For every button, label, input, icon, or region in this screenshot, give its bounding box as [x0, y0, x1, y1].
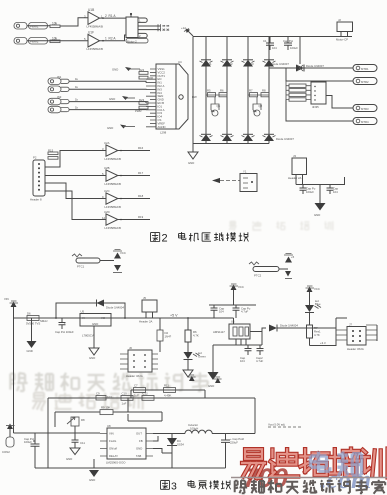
- svg-text:L7805CV: L7805CV: [82, 334, 94, 338]
- svg-text:GND: GND: [89, 356, 95, 360]
- svg-text:Header 2A: Header 2A: [288, 176, 302, 180]
- svg-text:J3: J3: [293, 154, 296, 158]
- resistor bank R9-R12: [286, 81, 306, 101]
- connector P5 (8-pin header): [30, 156, 45, 202]
- wire J6 to U2: [69, 102, 146, 103]
- inductor L1: [185, 423, 255, 434]
- svg-text:GND: GND: [314, 213, 320, 217]
- svg-text:Header 8: Header 8: [30, 198, 42, 202]
- svg-text:LF4558MA/B: LF4558MA/B: [105, 182, 121, 186]
- svg-text:+5 V: +5 V: [170, 314, 178, 318]
- svg-text:Green: Green: [198, 355, 206, 359]
- wire opto to P4: [286, 100, 353, 122]
- svg-text:C12: C12: [143, 392, 149, 396]
- connector Motor-CP (top right box): [336, 18, 353, 42]
- svg-text:1k: 1k: [75, 77, 79, 81]
- svg-text:LF4558MA/B: LF4558MA/B: [87, 25, 103, 29]
- svg-text:U1F: U1F: [88, 31, 94, 35]
- svg-text:103: 103: [107, 395, 112, 399]
- trimmer R25: [67, 417, 85, 433]
- svg-text:Cap Pol 100uF: Cap Pol 100uF: [55, 330, 74, 334]
- svg-text:R8: R8: [262, 89, 266, 93]
- svg-text:4N35: 4N35: [312, 105, 319, 109]
- svg-text:+3.3: +3.3: [320, 341, 326, 345]
- wire J1 to U1A: [27, 18, 88, 26]
- svg-text:TAB: TAB: [136, 454, 141, 458]
- IC U8 LM2596: [106, 424, 146, 465]
- svg-text:PWM1: PWM1: [30, 25, 39, 29]
- node cross junction: [297, 65, 303, 71]
- svg-text:L298: L298: [160, 131, 167, 135]
- wire drop from bus to row1: [299, 37, 301, 65]
- connector P2 (pill): [353, 78, 377, 85]
- ground arrow GND-A: [112, 67, 140, 72]
- svg-text:GND: GND: [188, 161, 194, 165]
- capacitor C18: [142, 392, 154, 401]
- diode D6 bottom col2: [221, 134, 234, 141]
- svg-text:C1: C1: [263, 39, 267, 43]
- test point marks: [268, 423, 301, 428]
- caption: fig.2 motor drive module: [151, 232, 249, 245]
- svg-text:Diode 1N4004: Diode 1N4004: [106, 306, 124, 310]
- resistor R20 LED chain: [185, 318, 199, 342]
- diode D3 top: [242, 60, 255, 67]
- IC U2 pin stubs: [146, 69, 156, 127]
- capacitor C15 input pol: [24, 433, 40, 452]
- jumper W1: [157, 318, 172, 352]
- svg-text:DW: DW: [192, 95, 197, 99]
- watermark: grey rule: [231, 477, 387, 479]
- wire U5B out: [118, 171, 150, 177]
- svg-text:4.7K: 4.7K: [314, 333, 320, 337]
- ground G5 LED: [183, 360, 193, 378]
- capacitor C1 on bus: [263, 37, 277, 51]
- capacitor C7: [233, 305, 251, 318]
- svg-text:R16: R16: [138, 146, 144, 150]
- wire H-bridge column 2: [226, 37, 228, 144]
- op-amp U5C: [102, 189, 121, 209]
- diode D13: [269, 324, 312, 332]
- op-amp U1A: [84, 8, 103, 29]
- svg-text:VCC: VCC: [238, 285, 244, 289]
- diode D4 top: [263, 60, 290, 67]
- svg-text:D6: D6: [27, 312, 31, 316]
- wire feedback loop A: [131, 390, 205, 398]
- svg-text:D3: D3: [250, 62, 254, 66]
- svg-text:C7: C7: [134, 384, 138, 388]
- wire opto to P3: [326, 96, 353, 109]
- wire U5C out: [118, 194, 150, 200]
- LED D12: [184, 342, 207, 360]
- connector J8 Header-2A: [139, 296, 157, 324]
- svg-text:R6: R6: [220, 89, 224, 93]
- svg-text:1k: 1k: [75, 85, 79, 89]
- diode D7 bottom col3: [242, 134, 255, 141]
- fuse F2 cluster: [249, 254, 295, 279]
- crystal Y1 with probe arrow: [212, 170, 257, 192]
- svg-text:3: 3: [171, 480, 177, 492]
- svg-text:GND: GND: [66, 457, 72, 461]
- wire bottom bus: [193, 143, 269, 145]
- svg-text:104: 104: [240, 359, 245, 363]
- wire H-bridge column 4: [268, 37, 270, 144]
- svg-text:GND: GND: [112, 68, 118, 72]
- capacitor C11: [164, 384, 176, 398]
- opto IC U3: [306, 82, 326, 109]
- capacitor C6: [209, 305, 256, 318]
- resistor R21 right: [307, 313, 321, 346]
- svg-text:2 R1 A: 2 R1 A: [105, 14, 116, 18]
- svg-text:C10: C10: [122, 392, 128, 396]
- resistor cluster near U2 mid: [135, 98, 148, 113]
- power arrow VCC-R: [306, 286, 320, 303]
- caption: fig.3 power module: [161, 480, 231, 492]
- svg-text:1uF: 1uF: [122, 402, 127, 406]
- svg-text:U2B: U2B: [104, 166, 110, 170]
- svg-text:GND: GND: [89, 478, 95, 482]
- svg-text:VIN: VIN: [109, 432, 114, 436]
- svg-text:FLAG: FLAG: [109, 439, 116, 443]
- svg-text:GND: GND: [107, 126, 113, 130]
- svg-text:1k: 1k: [75, 97, 79, 101]
- diode D9 on row1: [296, 64, 324, 72]
- svg-text:R19: R19: [138, 215, 144, 219]
- svg-text:IN3: IN3: [57, 95, 62, 99]
- wire VIN row: [48, 432, 100, 434]
- svg-text:MTR1: MTR1: [361, 67, 369, 71]
- svg-text:OUT: OUT: [136, 432, 142, 436]
- op-amp U5A: [102, 141, 121, 161]
- svg-text:Diode 1N4007: Diode 1N4007: [271, 62, 289, 66]
- svg-text:1k: 1k: [75, 105, 79, 109]
- wire row2 to vertical: [286, 68, 353, 81]
- svg-text:Y1: Y1: [243, 170, 247, 174]
- wire feedback loop B: [48, 398, 255, 434]
- svg-text:AMS1117: AMS1117: [213, 330, 225, 334]
- ghost watermark row 2: [32, 393, 46, 410]
- wire H-bridge column 1: [205, 37, 207, 144]
- capacitor C12: [96, 392, 112, 401]
- wire H-bridge column 3: [247, 37, 249, 144]
- svg-text:PWM2: PWM2: [30, 40, 39, 44]
- IC U2 L298 body: [156, 60, 197, 135]
- wire U5D out: [118, 215, 150, 221]
- svg-text:R8: R8: [81, 418, 85, 422]
- diode D5 bottom col1: [200, 134, 213, 141]
- capacitor C2 on bus: [283, 37, 298, 51]
- ground G7: [66, 448, 80, 461]
- svg-text:U2C: U2C: [104, 189, 110, 193]
- power arrow GND-D: [188, 375, 196, 381]
- svg-text:+12: +12: [181, 26, 186, 30]
- ground G6: [208, 372, 219, 388]
- svg-text:GND: GND: [27, 349, 33, 353]
- ground G4 regulator: [89, 326, 99, 360]
- svg-text:4.49K: 4.49K: [164, 394, 171, 398]
- wire J5 to U2: [69, 88, 146, 90]
- svg-text:Diode 1N4007: Diode 1N4007: [276, 137, 294, 141]
- wire J7 to U2: [69, 109, 146, 111]
- svg-text:104: 104: [272, 46, 277, 50]
- connector J4 row1: [48, 75, 79, 85]
- diode D11 bypass over regulator: [55, 300, 126, 319]
- svg-text:C9: C9: [96, 392, 100, 396]
- svg-text:100uF: 100uF: [306, 190, 314, 194]
- wire bottom rail: [35, 467, 226, 469]
- input cap C16 far left: [2, 424, 15, 455]
- IC U2 pin labels: [158, 67, 166, 129]
- svg-text:R15: R15: [48, 148, 54, 152]
- wire FB top link: [128, 414, 162, 421]
- ground G8: [89, 459, 99, 482]
- svg-text:R18: R18: [138, 194, 144, 198]
- wire feedback loop C: [55, 398, 162, 427]
- wire J4 to U2: [69, 81, 146, 82]
- IC U8 pin stubs: [100, 434, 153, 457]
- svg-text:VIN: VIN: [4, 297, 9, 301]
- svg-text:U4: U4: [178, 60, 182, 64]
- watermark: subtitle RF and antenna design experts: [235, 480, 248, 493]
- svg-text:P2: P2: [33, 156, 37, 160]
- connector Header2 right bottom: [288, 154, 307, 185]
- svg-text:D2: D2: [229, 62, 233, 66]
- svg-text:MTR4: MTR4: [361, 120, 369, 124]
- svg-text:Header 3X2A: Header 3X2A: [347, 347, 364, 351]
- svg-text:LF4558MA/B: LF4558MA/B: [105, 226, 121, 230]
- capacitor C13: [121, 392, 133, 406]
- svg-text:VI: VI: [82, 316, 85, 320]
- svg-text:4.7uF: 4.7uF: [256, 359, 263, 363]
- svg-text:Diode 1N4004: Diode 1N4004: [280, 324, 298, 328]
- TVS D10 on rail: [26, 312, 48, 326]
- svg-text:5V500 TVS: 5V500 TVS: [26, 322, 40, 326]
- svg-text:LM2596S-GOO: LM2596S-GOO: [106, 461, 126, 465]
- svg-text:U2A: U2A: [104, 141, 110, 145]
- resistor R24: [100, 406, 113, 415]
- svg-text:Motor-CP: Motor-CP: [336, 38, 348, 42]
- connector J10 Header 3X2: [312, 318, 377, 351]
- wire P5 to U5D: [45, 191, 106, 220]
- svg-text:J2: J2: [338, 18, 341, 22]
- diode D1 top: [200, 60, 213, 67]
- svg-text:4.7uF: 4.7uF: [241, 310, 248, 314]
- svg-text:Header 4X2A: Header 4X2A: [126, 374, 143, 378]
- op-amp U5B: [102, 166, 121, 186]
- svg-text:R9 10K: R9 10K: [101, 406, 110, 410]
- resistor cluster near U2 top: [139, 68, 154, 80]
- svg-text:R7: R7: [249, 89, 253, 93]
- svg-text:J5: J5: [143, 296, 146, 300]
- wire top bus: [193, 36, 352, 38]
- diode D2 top: [221, 60, 234, 67]
- svg-text:J6: J6: [129, 346, 132, 350]
- svg-text:4.7K: 4.7K: [193, 334, 199, 338]
- svg-text:220uF: 220uF: [230, 440, 238, 444]
- svg-text:Cap Pol: Cap Pol: [283, 39, 293, 43]
- capacitor C10: [134, 384, 146, 398]
- ground arrow GND-B: [109, 96, 135, 101]
- ground G3: [27, 318, 37, 353]
- svg-text:100: 100: [149, 76, 154, 80]
- wire main 5V rail: [14, 317, 234, 319]
- motor connector M1: [126, 13, 148, 43]
- capacitor C14: [72, 433, 86, 448]
- svg-text:FB: FB: [139, 439, 143, 443]
- wire left branch: [14, 433, 49, 468]
- svg-text:+5: +5: [291, 255, 295, 259]
- svg-text:R5: R5: [207, 89, 211, 93]
- svg-text:VCC: VCC: [314, 287, 320, 291]
- wire LED chain to header: [310, 340, 337, 346]
- svg-text:2: 2: [162, 233, 168, 245]
- svg-text:1uF: 1uF: [134, 394, 139, 398]
- transistor cluster Q1/Q2 (half-bridge 1): [206, 89, 227, 116]
- svg-text:C11: C11: [80, 441, 85, 445]
- motor output pins with terminals: [138, 24, 169, 31]
- output cap C17: [221, 434, 244, 469]
- wire FB right link: [153, 436, 172, 453]
- svg-text:LF4558MA/B: LF4558MA/B: [87, 47, 103, 51]
- resistor block near P5: [48, 148, 58, 159]
- svg-text:+: +: [64, 321, 66, 325]
- catch diode D15: [153, 434, 185, 469]
- connector P3 (pill): [353, 105, 377, 112]
- ghost watermark fragment row: [229, 221, 236, 230]
- svg-text:R11: R11: [164, 384, 169, 388]
- watermark: big red EDATop logo chars: [242, 449, 265, 478]
- svg-text:SS34: SS34: [177, 443, 184, 447]
- power arrow GND-E: [214, 377, 222, 383]
- watermark: blue overlay glyphs: [310, 452, 329, 472]
- wire AMS gnd loop: [213, 332, 262, 373]
- connector P4 (pill): [353, 118, 377, 125]
- svg-text:U8: U8: [107, 424, 111, 428]
- svg-text:Vout 5.0V adj: Vout 5.0V adj: [268, 423, 285, 427]
- connector P1 (pill): [353, 65, 377, 72]
- power arrow VCC top bus: [181, 26, 193, 36]
- svg-text:12: 12: [102, 216, 106, 220]
- svg-text:R17: R17: [138, 171, 144, 175]
- capacitor C8: [240, 345, 252, 363]
- connector J7 row4: [48, 105, 79, 113]
- wire left rail to ground: [192, 37, 194, 153]
- svg-text:100uF: 100uF: [290, 46, 298, 50]
- svg-text:J7: J7: [349, 323, 352, 327]
- ghost watermark row 1: [10, 373, 27, 391]
- svg-text:AGND: AGND: [158, 125, 166, 129]
- svg-text:104: 104: [333, 190, 338, 194]
- power arrow VIN left: [4, 297, 18, 433]
- svg-text:CON2: CON2: [2, 450, 10, 454]
- power arrow VCC-L: [230, 284, 244, 305]
- svg-text:Diode 1N4007: Diode 1N4007: [306, 64, 324, 68]
- connector J5 row2: [48, 85, 79, 93]
- wire P5 to U5B: [45, 175, 106, 177]
- svg-text:104: 104: [219, 310, 224, 314]
- wire U1B out / resistor R2: [100, 35, 127, 42]
- svg-text:100uH: 100uH: [190, 427, 198, 431]
- regulator U7 AMS1117: [213, 318, 250, 345]
- svg-text:LF4558MA/B: LF4558MA/B: [105, 205, 121, 209]
- svg-text:Q1: Q1: [217, 104, 221, 108]
- svg-text:MTR2: MTR2: [361, 80, 369, 84]
- svg-text:2: 2: [139, 34, 141, 38]
- svg-text:Header 2A: Header 2A: [139, 320, 153, 324]
- op-amp U5D: [102, 210, 121, 230]
- svg-text:1N4?: 1N4?: [165, 335, 172, 339]
- wire U5A out: [118, 146, 150, 152]
- wire P5 to U5C: [45, 183, 106, 199]
- capacitor C3: [300, 185, 316, 195]
- svg-text:DELAY: DELAY: [109, 454, 118, 458]
- svg-text:GND: GND: [208, 384, 214, 388]
- wire U1A out / resistor R1: [100, 14, 127, 19]
- svg-text:1 R2 A: 1 R2 A: [105, 37, 116, 41]
- wire J2 to U1B: [27, 40, 88, 42]
- ground G2: [314, 185, 326, 218]
- ground G1: [188, 152, 198, 165]
- ground arrow GND-C: [107, 125, 135, 131]
- diode D8 bottom col4: [263, 134, 295, 141]
- svg-text:MTR3: MTR3: [361, 107, 369, 111]
- fuse F1 cluster: [72, 250, 126, 273]
- svg-text:U1B: U1B: [88, 8, 94, 12]
- svg-text:GND: GND: [92, 322, 98, 326]
- svg-text:VCC: VCC: [120, 251, 126, 255]
- svg-text:PTC2: PTC2: [254, 274, 262, 278]
- svg-text:Q2: Q2: [259, 104, 263, 108]
- capacitor C9: [256, 345, 264, 363]
- svg-text:GND: GND: [136, 447, 142, 451]
- svg-text:U2D: U2D: [104, 210, 110, 214]
- svg-text:IN1: IN1: [57, 75, 62, 79]
- connector J6 row3: [48, 95, 79, 105]
- wire AMS out: [250, 328, 266, 332]
- svg-text:U5: U5: [81, 310, 85, 314]
- svg-text:GND: GND: [109, 97, 115, 101]
- svg-text:R22: R22: [139, 68, 145, 72]
- svg-text:PTC1: PTC1: [77, 265, 85, 269]
- svg-text:D1: D1: [208, 62, 212, 66]
- transistor cluster Q3/Q4 (half-bridge 2): [248, 89, 269, 116]
- svg-text:ON/off: ON/off: [109, 447, 117, 451]
- net label +5V: [170, 314, 189, 319]
- svg-text:SMAJ: SMAJ: [40, 319, 48, 323]
- svg-text:LF4558MA/B: LF4558MA/B: [105, 157, 121, 161]
- capacitor C4: [327, 185, 339, 195]
- LED D14 right: [305, 299, 321, 313]
- op-amp U1B: [84, 31, 103, 52]
- capacitor C5 under rail: [55, 318, 74, 334]
- wire P5 to U5A: [45, 151, 106, 168]
- regulator U6 L7805: [80, 310, 111, 338]
- wire bottom-right rail: [296, 177, 345, 185]
- connector J2 (servo input 2): [14, 37, 60, 45]
- connector J9 Header 4X2: [120, 346, 158, 378]
- wire motor-out row 1: [269, 67, 353, 69]
- svg-text:100uF: 100uF: [24, 440, 32, 444]
- connector J1 (servo input 1): [14, 22, 60, 30]
- svg-text:Blue: Blue: [315, 302, 321, 306]
- svg-text:Motor-2: Motor-2: [127, 39, 137, 43]
